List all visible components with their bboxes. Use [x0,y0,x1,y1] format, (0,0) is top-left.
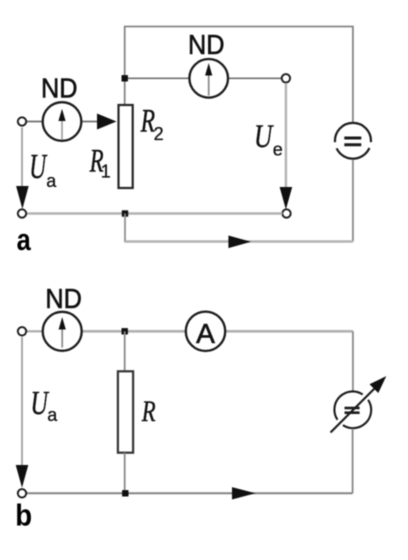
op ND meter U3 circle [43,312,82,351]
ND meter U2 needle [208,76,210,96]
wire input terminal to ND meter U1 [26,121,44,123]
svg-text:U: U [254,119,274,155]
wire ND meter U1 to wiper arrow [81,121,100,123]
wire meter row: node to ND meter U2 [125,77,190,79]
wire bottom rail b [26,492,353,494]
wire right column bottom b [352,429,354,494]
svg-text:a: a [17,222,32,257]
wire resistor to bottom rail [124,453,126,494]
terminal input bottom a [18,209,26,217]
source adjustable equals sign [345,407,360,410]
wire return line [125,240,353,243]
svg-text:b: b [15,498,32,533]
terminal input left a [18,117,26,125]
source DC V1 circle arcs [335,123,371,142]
node bottom junction b [122,490,128,496]
node top junction [122,75,128,81]
source adjustable diagonal arrow [331,389,375,433]
svg-text:R: R [141,395,156,428]
svg-text:A: A [196,318,215,349]
arrow current direction b [232,487,256,499]
arrow current direction a [228,236,251,249]
svg-text:1: 1 [101,161,111,181]
resistor R1/R2 body [119,105,133,188]
terminal output bottom [282,209,290,217]
arrow Ua head [16,186,29,209]
op ND meter U1 circle [43,102,82,141]
wire right column below source [352,160,354,242]
arrow Ua stem [21,128,23,187]
node bottom junction a [122,210,128,216]
terminal input left b [18,327,26,335]
svg-text:2: 2 [154,124,164,144]
wire input terminal to ND meter b [26,330,44,332]
arrow Ua-b stem [21,337,23,465]
arrow Ue head [280,187,293,210]
wire A meter to right corner [225,330,353,333]
source DC adjustable circle arcs [343,400,371,428]
wire right column top b [352,331,354,392]
svg-text:ND: ND [188,29,225,60]
svg-text:ND: ND [45,283,82,314]
wire bottom rail a [26,212,282,214]
wiper arrowhead into R [97,114,117,130]
wire ND meter U2 to output terminal [228,77,284,79]
wire top rail [125,27,353,122]
ND meter U3 needle [61,330,63,348]
wire junction to resistor R [124,331,126,370]
svg-text:e: e [273,140,283,160]
source DC V1 equals sign [344,137,361,140]
op ND meter U2 circle [189,59,228,98]
arrow Ua-b head [16,465,29,488]
wire ND to A meter [82,330,187,333]
svg-text:ND: ND [41,72,78,103]
ND meter U1 needle [61,121,63,140]
resistor R body [118,371,133,452]
terminal input bottom b [18,489,26,497]
node junction top b [122,328,128,334]
svg-text:a: a [47,405,58,425]
svg-text:a: a [46,171,57,191]
op ammeter A circle [186,312,225,351]
arrow Ue stem [285,83,287,188]
wire return drop [124,214,126,243]
terminal output top [282,74,290,82]
